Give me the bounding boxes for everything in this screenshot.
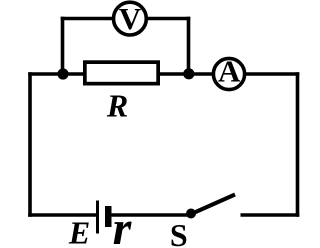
battery E: long thin plate [96,201,99,234]
svg-text:R: R [106,88,128,124]
node: junction dot right of R [183,68,194,79]
svg-text:S: S [170,217,188,248]
wire: voltmeter branch top horizontal [61,17,191,21]
ammeter U2 circle [213,58,244,89]
wire: top main horizontal (through R and A) [28,72,299,76]
wire: bottom right segment switch to corner [241,213,300,217]
svg-text:V: V [119,1,142,36]
wire: voltmeter branch right vertical [187,17,191,74]
switch S pivot dot [186,209,196,219]
resistor R box [85,62,158,84]
wire: bottom middle segment battery to switch [110,213,191,217]
wire: voltmeter branch left vertical [61,17,65,74]
battery E: short thick plate [105,206,112,227]
svg-text:r: r [113,202,133,248]
voltmeter U1 circle [113,2,146,35]
node: junction dot left of R [57,68,68,79]
wire: left vertical side of outer loop [28,72,32,217]
wire: right vertical side of outer loop [296,72,300,217]
switch S arm [190,195,235,215]
wire: bottom left segment to battery [28,213,96,217]
svg-text:A: A [218,54,241,89]
svg-text:E: E [68,215,90,248]
